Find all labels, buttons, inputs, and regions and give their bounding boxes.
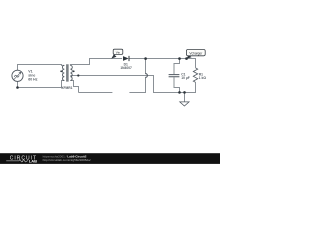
svg-text:1 kΩ: 1 kΩ: [199, 76, 207, 80]
svg-text:http://circuitlab.com/c2g5fk29: http://circuitlab.com/c2g5fk29688da/: [43, 158, 91, 162]
svg-text:LAB: LAB: [29, 159, 37, 164]
svg-text:Vin: Vin: [116, 50, 121, 54]
svg-text:XFMR1: XFMR1: [61, 86, 72, 90]
svg-text:10 µF: 10 µF: [181, 76, 190, 80]
svg-text:60 Hz: 60 Hz: [28, 78, 37, 82]
svg-text:1N4007: 1N4007: [120, 66, 132, 70]
svg-text:Vcharger: Vcharger: [189, 52, 203, 56]
